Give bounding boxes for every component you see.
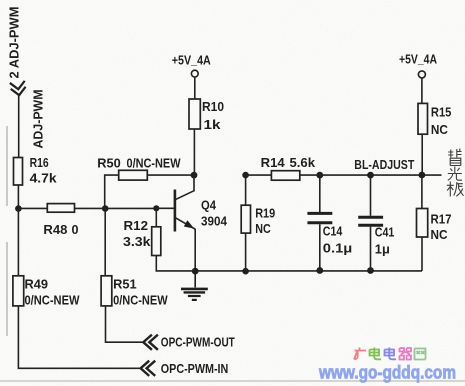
wire R48 to node B: [75, 207, 106, 209]
resistor R51 body: [101, 276, 112, 306]
capacitor C14 top lead: [319, 175, 321, 212]
node C junction dot (base/R12): [153, 205, 159, 211]
wire terminal to R15: [421, 78, 423, 103]
resistor R19 body: [241, 205, 250, 233]
char ban (board): [447, 182, 464, 197]
faint bottom scan band: [0, 380, 465, 382]
resistor R17 body: [417, 209, 428, 238]
char wang (magenta): [415, 349, 426, 360]
node R19 bottom junction dot: [242, 268, 249, 275]
bottom ground rail: [195, 270, 422, 272]
wire R10 to node D: [193, 129, 195, 175]
wire node B down to R51: [104, 209, 106, 276]
wire emitter down to ground node: [194, 229, 196, 271]
wire node C to Q4 base: [156, 207, 174, 209]
svg-text:+5V_4A: +5V_4A: [399, 53, 437, 67]
resistor R48 body: [47, 204, 74, 213]
wire node A to R48: [18, 207, 47, 209]
wire terminal to R10: [194, 77, 196, 99]
svg-text:0/NC-NEW: 0/NC-NEW: [25, 292, 81, 307]
char dian 1 (orange): [370, 348, 382, 360]
wire node G to backlight board: [422, 174, 442, 176]
capacitor C14 plates: [307, 213, 332, 222]
wire R17 to ground rail: [421, 237, 423, 271]
wire R50 left lead down to node B: [105, 175, 119, 205]
ground node junction dot: [192, 268, 199, 275]
svg-text:OPC-PWM-OUT: OPC-PWM-OUT: [161, 335, 235, 350]
resistor R15 body: [418, 103, 428, 134]
wire R12 bottom to ground rail: [156, 256, 195, 271]
capacitor C14 bottom lead: [319, 224, 321, 271]
svg-text:NC: NC: [431, 122, 449, 137]
connector chevron OPC-PWM-IN: [141, 361, 156, 376]
svg-text:R50: R50: [97, 156, 121, 171]
svg-text:OPC-PWM-IN: OPC-PWM-IN: [161, 361, 229, 376]
resistor R50 body: [119, 170, 148, 180]
svg-text:5.6k: 5.6k: [290, 155, 316, 170]
resistor R16 body: [14, 158, 23, 186]
capacitor C41 top lead: [370, 175, 372, 216]
svg-text:R48: R48: [43, 222, 67, 237]
ground symbol: [181, 271, 208, 300]
svg-text:R17: R17: [431, 211, 452, 226]
resistor R10 body: [189, 99, 200, 129]
svg-text:C41: C41: [375, 225, 395, 240]
node F junction dot (C41 top): [367, 172, 374, 179]
resistor R49 body: [13, 276, 24, 306]
node C41 bottom junction dot: [367, 267, 374, 274]
svg-text:R49: R49: [25, 277, 49, 292]
wire node E to node F: [320, 174, 371, 176]
wire node B to node C: [105, 207, 156, 209]
svg-text:C14: C14: [323, 224, 343, 239]
wire node G to R17: [421, 175, 423, 208]
svg-text:0/NC-NEW: 0/NC-NEW: [113, 292, 168, 307]
connector chevron OPC-PWM-OUT: [143, 335, 158, 350]
+5V_4A terminal circle (right): [418, 71, 425, 78]
svg-text:www.go-gddq.com: www.go-gddq.com: [318, 363, 456, 383]
node R19 top junction dot: [242, 172, 249, 179]
transistor Q4 collector stroke: [175, 175, 194, 200]
wire node B down to R49... wire node A down to R49: [17, 209, 19, 276]
svg-text:R16: R16: [30, 155, 49, 170]
svg-text:3.3k: 3.3k: [123, 234, 151, 249]
faint page border line left: [6, 126, 8, 336]
svg-text:3904: 3904: [201, 214, 228, 229]
svg-text:NC: NC: [431, 227, 449, 242]
wire R19 top lead: [245, 175, 247, 205]
svg-text:R14: R14: [261, 155, 286, 170]
node B junction dot: [102, 205, 109, 212]
node D junction dot (collector/R10): [191, 172, 198, 179]
wire R16 to node A: [17, 185, 19, 209]
wire chevron to R16: [18, 95, 20, 158]
wire R51 bottom to OPC-PWM-OUT: [106, 306, 144, 342]
svg-text:R19: R19: [255, 205, 275, 220]
svg-text:NC: NC: [255, 221, 271, 236]
wire R14 to node E: [300, 174, 320, 176]
resistor R12 body: [152, 227, 161, 256]
connector chevron ADJ-PWM: [10, 81, 27, 96]
wire R19 bottom lead: [245, 233, 247, 271]
transistor Q4 emitter stroke: [175, 217, 195, 229]
node C14 bottom junction dot: [316, 267, 323, 274]
char dian 2 (blue): [385, 348, 397, 360]
capacitor C41 bottom lead: [370, 227, 372, 271]
svg-text:+5V_4A: +5V_4A: [172, 53, 211, 67]
svg-text:0.1μ: 0.1μ: [323, 241, 353, 256]
svg-text:Q4: Q4: [201, 198, 217, 213]
char guang (light): [448, 167, 462, 181]
node G junction dot (R15/R17): [419, 172, 426, 179]
wire R50 right to node D: [147, 174, 194, 176]
capacitor C41 plates: [358, 217, 383, 225]
svg-text:1k: 1k: [204, 117, 222, 132]
svg-text:0/NC-NEW: 0/NC-NEW: [127, 156, 182, 171]
wire node F to node G: [371, 174, 422, 176]
svg-text:R15: R15: [431, 105, 452, 120]
node A junction dot: [15, 205, 22, 212]
char qi (green): [400, 348, 412, 360]
wire R15 to node G: [421, 134, 423, 175]
svg-text:R12: R12: [124, 218, 149, 233]
svg-text:ADJ-PWM: ADJ-PWM: [30, 90, 45, 149]
backlight board label (Chinese: bei guang ban): [447, 149, 464, 197]
svg-text:R10: R10: [202, 99, 224, 114]
char bei (back): [448, 149, 461, 158]
svg-text:R51: R51: [113, 277, 137, 292]
svg-text:4.7k: 4.7k: [30, 171, 58, 186]
watermark Chinese characters guang dian dian qi wang: [354, 348, 426, 360]
svg-text:0: 0: [72, 222, 79, 237]
node E junction dot (C14 top): [316, 172, 323, 179]
resistor R14 body: [271, 171, 299, 181]
svg-text:1μ: 1μ: [375, 242, 390, 257]
svg-text:2 ADJ-PWM: 2 ADJ-PWM: [7, 7, 22, 79]
+5V_4A terminal circle (left): [191, 70, 198, 77]
wire R12 top lead: [155, 208, 157, 227]
wire node D to R14: [246, 174, 272, 176]
svg-text:BL-ADJUST: BL-ADJUST: [354, 157, 414, 172]
transistor Q2 base bar: [174, 190, 177, 232]
transistor Q4 emitter arrowhead: [184, 220, 194, 228]
char guang (red): [354, 348, 366, 360]
wire R49 bottom to OPC-PWM-IN: [18, 306, 140, 368]
